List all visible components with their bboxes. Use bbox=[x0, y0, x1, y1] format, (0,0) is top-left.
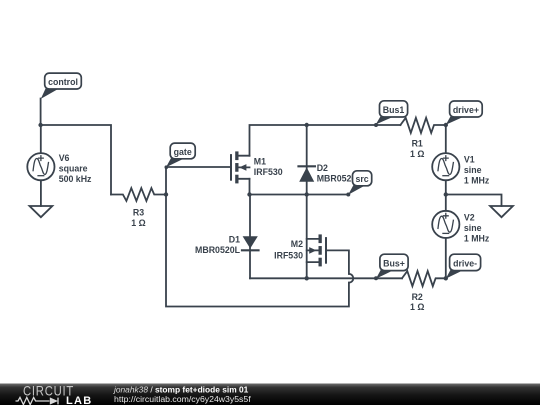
svg-text:sine: sine bbox=[464, 165, 482, 175]
svg-text:R1: R1 bbox=[412, 139, 423, 149]
svg-text:square: square bbox=[59, 163, 88, 173]
svg-text:drive-: drive- bbox=[453, 258, 477, 268]
svg-text:V2: V2 bbox=[464, 212, 475, 222]
svg-text:IRF530: IRF530 bbox=[274, 250, 303, 260]
svg-text:500 kHz: 500 kHz bbox=[59, 174, 92, 184]
svg-text:R2: R2 bbox=[412, 292, 423, 302]
svg-text:Bus+: Bus+ bbox=[383, 258, 405, 268]
svg-text:D2: D2 bbox=[317, 163, 328, 173]
svg-text:Bus1: Bus1 bbox=[383, 105, 405, 115]
svg-text:M2: M2 bbox=[291, 239, 303, 249]
svg-text:1 Ω: 1 Ω bbox=[410, 149, 424, 159]
svg-text:1 MHz: 1 MHz bbox=[464, 233, 490, 243]
svg-text:1 Ω: 1 Ω bbox=[131, 218, 145, 228]
svg-text:MBR0520L: MBR0520L bbox=[195, 245, 241, 255]
svg-text:1 Ω: 1 Ω bbox=[410, 302, 424, 312]
svg-text:IRF530: IRF530 bbox=[254, 167, 283, 177]
svg-text:LAB: LAB bbox=[66, 395, 93, 405]
svg-text:drive+: drive+ bbox=[453, 105, 479, 115]
svg-text:1 MHz: 1 MHz bbox=[464, 176, 490, 186]
svg-text:R3: R3 bbox=[133, 208, 144, 218]
svg-text:gate: gate bbox=[174, 147, 192, 157]
svg-text:D1: D1 bbox=[229, 234, 240, 244]
svg-text:V6: V6 bbox=[59, 153, 70, 163]
svg-text:control: control bbox=[48, 77, 78, 87]
svg-text:jonahk38 / stomp fet+diode sim: jonahk38 / stomp fet+diode sim 01 bbox=[113, 384, 249, 394]
svg-text:sine: sine bbox=[464, 223, 482, 233]
svg-text:M1: M1 bbox=[254, 156, 266, 166]
svg-text:src: src bbox=[355, 174, 368, 184]
svg-text:V1: V1 bbox=[464, 155, 475, 165]
svg-text:http://circuitlab.com/cy6y24w3: http://circuitlab.com/cy6y24w3y5s5f bbox=[114, 394, 251, 404]
